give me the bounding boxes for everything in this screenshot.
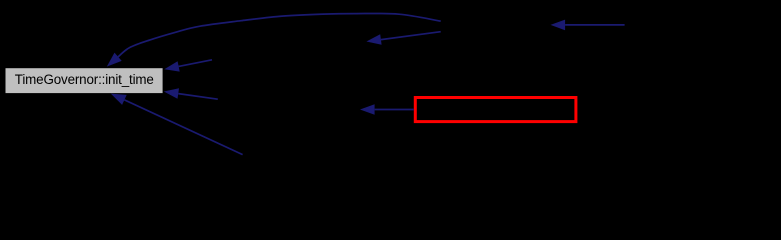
arrowhead E3	[164, 88, 179, 99]
arrowhead E2	[164, 61, 179, 71]
arrowhead E1	[107, 53, 122, 67]
arrowhead E6	[551, 20, 566, 31]
arrowhead E5	[360, 104, 375, 115]
edge E7: from hidden right node to hidden top-middle node	[381, 32, 441, 40]
edge E4: caller edge from lower right into bottom of init_time	[124, 100, 242, 155]
edge E2: short caller edge into right-top of init_time	[179, 60, 212, 67]
node TimeGovernor::init_time (current node, gray)	[6, 68, 163, 93]
arrowhead E7	[366, 34, 381, 45]
edge E6: far right horizontal edge	[565, 24, 625, 26]
arrowhead E4	[111, 94, 127, 105]
edge E3: caller edge into right-bottom of init_time	[178, 94, 218, 100]
edge E5: from red box to hidden middle node	[375, 109, 414, 111]
edge E1: long curved caller edge into top of init_time	[118, 13, 441, 56]
node truncated (red box)	[415, 98, 576, 122]
svg-text:TimeGovernor::init_time: TimeGovernor::init_time	[15, 72, 154, 87]
